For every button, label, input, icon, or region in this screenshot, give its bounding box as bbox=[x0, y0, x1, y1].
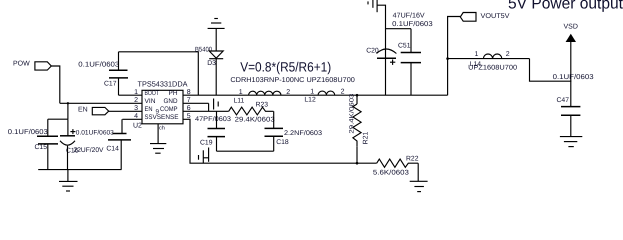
svg-text:1: 1 bbox=[239, 89, 243, 96]
svg-text:VOUT5V: VOUT5V bbox=[481, 13, 510, 20]
inductor L14 bbox=[448, 58, 530, 60]
svg-text:R21: R21 bbox=[362, 132, 369, 145]
svg-text:2.2NF/0603: 2.2NF/0603 bbox=[284, 130, 322, 137]
wire PH node bbox=[183, 94, 448, 96]
svg-text:COMP: COMP bbox=[160, 106, 178, 113]
VOUT5V port tag bbox=[460, 13, 476, 22]
wire output to VOUT5V bbox=[448, 17, 461, 96]
ground sideways comp bbox=[208, 148, 210, 162]
wire bootstrap rail bbox=[119, 52, 199, 95]
wire COMP pin6 bbox=[183, 110, 229, 112]
svg-text:29.4K/0603: 29.4K/0603 bbox=[348, 93, 355, 134]
node VOUT5V junction bbox=[446, 57, 449, 60]
svg-text:2: 2 bbox=[286, 89, 290, 96]
svg-text:C19: C19 bbox=[200, 140, 213, 147]
svg-text:47UF/16V: 47UF/16V bbox=[393, 11, 425, 19]
svg-text:U2: U2 bbox=[133, 122, 142, 129]
resistor R21 bbox=[356, 95, 358, 104]
pin 4 SS wire bbox=[122, 118, 142, 120]
ground C47 bbox=[560, 136, 582, 138]
svg-text:BOOT: BOOT bbox=[145, 90, 160, 97]
svg-text:ch: ch bbox=[159, 126, 165, 132]
wire GND pin7 bbox=[183, 102, 209, 104]
svg-text:VSD: VSD bbox=[564, 23, 578, 30]
svg-text:GND: GND bbox=[164, 98, 178, 105]
wire input cap rail bbox=[48, 118, 68, 120]
svg-text:2: 2 bbox=[341, 88, 345, 95]
svg-text:D3: D3 bbox=[207, 60, 216, 67]
svg-text:0.1UF/0603: 0.1UF/0603 bbox=[8, 128, 48, 136]
ground IC pad bbox=[150, 143, 166, 145]
svg-text:TPS54331DDA: TPS54331DDA bbox=[138, 79, 188, 88]
svg-text:9: 9 bbox=[156, 108, 160, 115]
svg-text:C15: C15 bbox=[35, 144, 48, 151]
svg-text:C51: C51 bbox=[398, 43, 411, 50]
svg-text:5V Power output: 5V Power output bbox=[508, 0, 623, 12]
svg-text:29.4K/0603: 29.4K/0603 bbox=[235, 117, 275, 124]
svg-text:C14: C14 bbox=[106, 146, 119, 153]
svg-text:L12: L12 bbox=[304, 97, 316, 104]
svg-text:POW: POW bbox=[13, 61, 30, 68]
svg-text:0.1UF/0603: 0.1UF/0603 bbox=[553, 73, 594, 81]
svg-text:C18: C18 bbox=[276, 139, 289, 146]
svg-text:PH: PH bbox=[169, 90, 178, 97]
svg-text:B5400: B5400 bbox=[195, 46, 212, 53]
wire drop to input caps bbox=[67, 103, 69, 119]
svg-text:C17: C17 bbox=[104, 81, 117, 88]
ground sideways top output bbox=[367, 1, 369, 4]
svg-text:L11: L11 bbox=[234, 97, 245, 104]
wire L14 to VSD bbox=[530, 59, 572, 82]
svg-text:0.1UF/0603: 0.1UF/0603 bbox=[78, 61, 119, 69]
svg-text:CDRH103RNP-100NC UPZ1608U700: CDRH103RNP-100NC UPZ1608U700 bbox=[230, 77, 355, 84]
pin 9 pad wire bbox=[157, 124, 159, 144]
svg-text:C47: C47 bbox=[557, 97, 570, 104]
ground input bbox=[67, 170, 69, 182]
ground above D3 bbox=[214, 18, 218, 20]
node PH/R21 junction bbox=[356, 94, 359, 97]
svg-text:EN: EN bbox=[145, 106, 153, 113]
wire EN to pin3 bbox=[109, 110, 142, 112]
svg-text:V=0.8*(R5/R6+1): V=0.8*(R5/R6+1) bbox=[240, 59, 331, 74]
wire pin7 to pin6 bbox=[208, 103, 210, 111]
capacitor C16 bbox=[70, 131, 75, 133]
svg-text:UPZ1608U700: UPZ1608U700 bbox=[468, 65, 517, 72]
node input junction bbox=[67, 102, 69, 104]
wire input ground rail bbox=[38, 169, 121, 171]
wire VSENSE pin5 bbox=[183, 119, 377, 163]
svg-text:5.6K/0603: 5.6K/0603 bbox=[373, 170, 409, 177]
svg-text:3: 3 bbox=[134, 105, 138, 112]
svg-text:2: 2 bbox=[506, 51, 510, 58]
svg-text:1: 1 bbox=[310, 88, 314, 95]
svg-text:0.01UF/0603: 0.01UF/0603 bbox=[76, 129, 114, 136]
ground R22 bbox=[417, 163, 419, 181]
wire POW to VIN rail bbox=[51, 66, 60, 103]
svg-text:VIN: VIN bbox=[145, 98, 156, 105]
svg-text:47PF/0603: 47PF/0603 bbox=[195, 116, 231, 123]
svg-text:22UF/20V: 22UF/20V bbox=[74, 147, 104, 154]
svg-text:1: 1 bbox=[134, 89, 138, 96]
ground sideways pin7 bbox=[213, 99, 215, 110]
wire comp rail bbox=[217, 150, 274, 152]
svg-text:0.1UF/0603: 0.1UF/0603 bbox=[392, 20, 433, 28]
node VSENSE/R21 junction bbox=[356, 162, 359, 165]
svg-text:EN: EN bbox=[78, 107, 88, 114]
svg-text:2: 2 bbox=[134, 97, 138, 104]
wire VIN pin2 row bbox=[60, 102, 142, 104]
svg-text:1: 1 bbox=[475, 51, 479, 58]
svg-text:R22: R22 bbox=[406, 156, 419, 163]
